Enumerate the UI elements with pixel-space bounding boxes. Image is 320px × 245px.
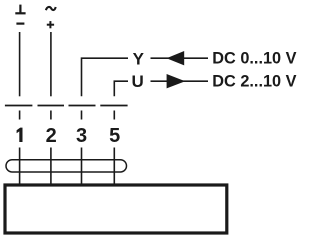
terminal number 1 — [17, 128, 23, 142]
wire 3 lower segment — [81, 148, 83, 185]
svg-text:DC 0...10 V: DC 0...10 V — [212, 49, 296, 67]
terminal 3 stub wire — [81, 111, 83, 120]
terminal 1 stub wire — [19, 111, 21, 120]
wire 2 — [50, 32, 52, 96]
wire 2 lower segment — [50, 148, 52, 185]
plus polarity label — [47, 21, 54, 28]
wire 1 lower segment — [19, 148, 21, 185]
AC symbol ~ (terminal 2) — [46, 7, 56, 10]
ground/common symbol (terminal 1) — [15, 5, 25, 14]
svg-text:2: 2 — [46, 125, 57, 147]
terminal 2 contact dash — [38, 105, 65, 107]
svg-text:DC 2...10 V: DC 2...10 V — [212, 72, 296, 90]
wire 3 (Y signal) — [82, 58, 129, 96]
minus polarity label — [16, 23, 24, 25]
svg-text:3: 3 — [76, 125, 87, 147]
terminal 5 contact dash — [100, 105, 127, 107]
U output arrow (points right) — [151, 80, 209, 82]
wire 5 (U signal) — [114, 81, 128, 96]
actuator body — [5, 185, 227, 233]
terminal 3 contact dash — [69, 105, 96, 107]
wire 1 — [19, 32, 21, 96]
terminal 5 stub wire — [113, 111, 115, 120]
terminal 2 stub wire — [50, 111, 52, 120]
svg-text:5: 5 — [109, 125, 120, 147]
svg-text:Y: Y — [133, 50, 145, 69]
wire 5 lower segment — [113, 148, 115, 185]
terminal 1 contact dash — [5, 105, 33, 107]
svg-text:U: U — [131, 72, 143, 91]
Y input arrow (points left) — [151, 57, 209, 59]
cable bundle sleeve — [6, 160, 127, 172]
